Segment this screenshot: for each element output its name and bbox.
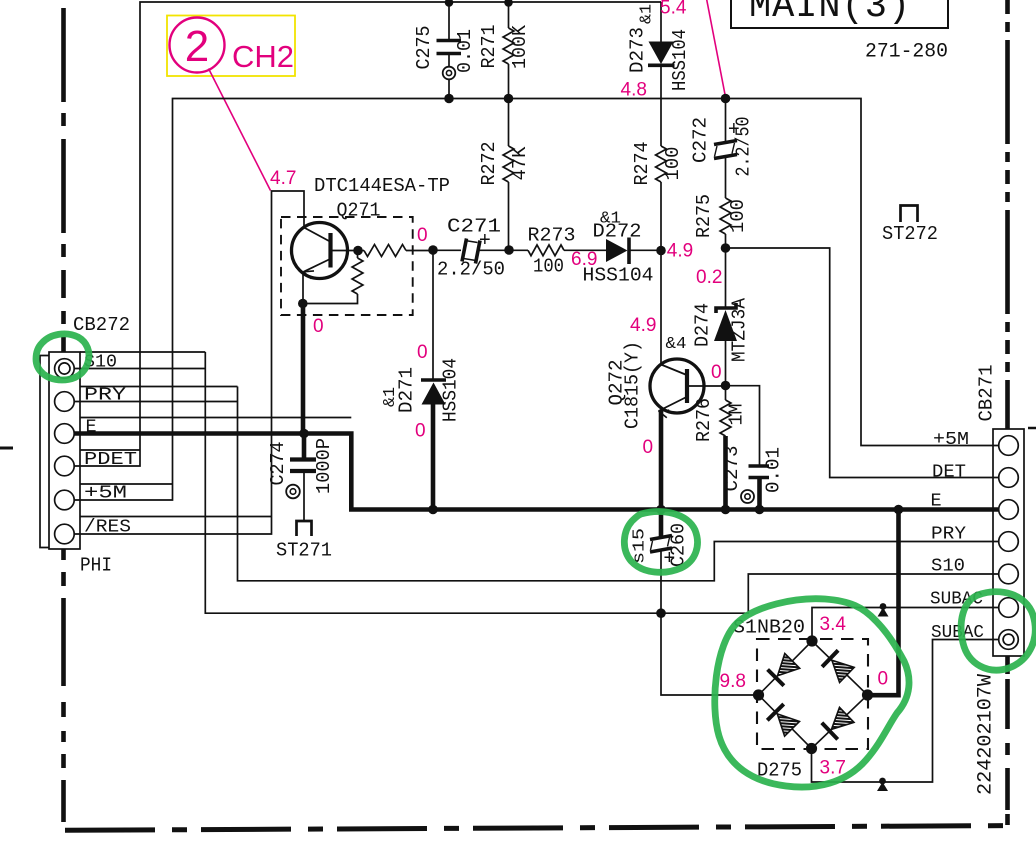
capacitor C260 (electrolytic) bbox=[631, 510, 690, 614]
svg-text:2.2/50: 2.2/50 bbox=[437, 259, 505, 281]
annotation voltage 0 #11 bbox=[711, 362, 722, 383]
resistor R272 47K bbox=[478, 99, 531, 251]
label 224202107W bbox=[975, 674, 998, 795]
svg-text:0.01: 0.01 bbox=[454, 29, 476, 73]
svg-text:C260: C260 bbox=[668, 523, 690, 567]
svg-text:R271: R271 bbox=[478, 25, 500, 69]
label S10 (CB272) bbox=[80, 352, 205, 373]
svg-text:C271: C271 bbox=[447, 216, 501, 238]
svg-text:100: 100 bbox=[533, 256, 564, 278]
svg-text:C273: C273 bbox=[721, 446, 743, 492]
capacitor C273 0.01 bbox=[721, 386, 785, 510]
svg-text:0: 0 bbox=[313, 316, 324, 337]
label PRY (CB271) bbox=[931, 524, 966, 545]
annotation voltage 3.7 #16 bbox=[820, 758, 846, 779]
svg-text:HSS104: HSS104 bbox=[440, 358, 462, 422]
svg-text:224202107W: 224202107W bbox=[975, 674, 998, 795]
annotation voltage 6.9 #7 bbox=[571, 249, 597, 270]
svg-text:0: 0 bbox=[417, 225, 428, 246]
connector CB271 pin +5M bbox=[999, 436, 1019, 456]
label SUBA (CB271) bbox=[930, 589, 983, 610]
svg-text:C275: C275 bbox=[413, 26, 435, 70]
wire Q272 emitter to E (thick) bbox=[659, 410, 664, 510]
page edge tick right bbox=[1028, 427, 1036, 430]
page edge tick left bbox=[0, 447, 13, 450]
label /RES (CB272) bbox=[80, 517, 272, 538]
wire DET net bbox=[726, 248, 999, 478]
svg-text:R274: R274 bbox=[631, 142, 653, 186]
svg-text:4.9: 4.9 bbox=[630, 315, 656, 336]
annotation voltage 5.4 #0 bbox=[660, 0, 687, 19]
svg-text:4.8: 4.8 bbox=[621, 80, 647, 101]
bridge diode lower-left bbox=[767, 704, 799, 736]
annotation voltage 4.7 #2 bbox=[270, 168, 296, 189]
connector CB272 pin PRY bbox=[55, 392, 75, 412]
connector CB272 pin PDET bbox=[55, 456, 75, 476]
capacitor C271 2.2/50 (electrolytic) bbox=[433, 216, 509, 281]
svg-text:S10: S10 bbox=[931, 556, 965, 577]
junction R271 bottom bbox=[504, 94, 514, 104]
svg-text:100K: 100K bbox=[509, 24, 531, 69]
annotation voltage 0 #4 bbox=[313, 316, 324, 337]
resistor Q271 internal R2 bbox=[303, 251, 363, 304]
svg-text:4.9: 4.9 bbox=[667, 241, 693, 262]
svg-text:0.2: 0.2 bbox=[696, 267, 722, 288]
svg-text:3.4: 3.4 bbox=[820, 614, 847, 635]
svg-text:0: 0 bbox=[417, 342, 428, 363]
connector CB272 bracket bbox=[40, 356, 49, 548]
junction bridge bottom vertex bbox=[806, 743, 817, 754]
highlight ring CB272 S10 pin bbox=[36, 334, 89, 380]
resistor R273 100 bbox=[509, 225, 606, 278]
bridge diode upper-left bbox=[768, 654, 800, 686]
junction D272 cathode / R274 node bbox=[656, 246, 666, 256]
junction C260/S10 node bbox=[656, 608, 666, 618]
svg-text:ST272: ST272 bbox=[882, 223, 938, 245]
annotation voltage 0 #5 bbox=[417, 342, 428, 363]
svg-text:DET: DET bbox=[932, 462, 966, 483]
junction E feeder right bbox=[894, 505, 904, 515]
resistor R275 100 bbox=[693, 157, 749, 248]
svg-text:271-280: 271-280 bbox=[865, 41, 948, 64]
bridge diode lower-right bbox=[822, 707, 854, 739]
svg-text:CB271: CB271 bbox=[976, 365, 998, 422]
connector CB272 pin /RES bbox=[55, 524, 75, 544]
junction bridge right vertex bbox=[862, 689, 873, 700]
strap ST271 bbox=[276, 521, 332, 562]
callout circled 2 bbox=[170, 18, 225, 73]
svg-text:ST271: ST271 bbox=[276, 540, 332, 562]
svg-text:SUBAC: SUBAC bbox=[931, 622, 984, 643]
highlight ring C260 bbox=[624, 512, 697, 573]
svg-text:Q271: Q271 bbox=[337, 200, 381, 222]
label PRY (CB272) bbox=[80, 385, 238, 406]
connector CB271 pin PRY bbox=[999, 532, 1019, 552]
svg-text:2.2/50: 2.2/50 bbox=[733, 117, 755, 177]
wire PRY net bbox=[74, 387, 998, 581]
callout box (yellow) bbox=[167, 16, 295, 77]
resistor R274 100 bbox=[631, 142, 684, 365]
test point marker on SUBAC wire bbox=[877, 778, 888, 791]
wire E feeder to bridge right vertex (thick) bbox=[865, 510, 899, 696]
junction bridge left vertex bbox=[753, 689, 764, 700]
annotation voltage 0.2 #10 bbox=[696, 267, 722, 288]
annotation voltage 4.9 #8 bbox=[667, 241, 693, 262]
wire /RES net bbox=[74, 191, 304, 534]
junction D271/E bbox=[428, 505, 438, 515]
annotation voltage 0 #6 bbox=[415, 421, 426, 442]
label +5M (CB271) bbox=[933, 429, 969, 450]
svg-text:4.7: 4.7 bbox=[270, 168, 296, 189]
svg-text:R276: R276 bbox=[693, 398, 715, 442]
diode D272 HSS104 bbox=[583, 210, 662, 287]
svg-text:+: + bbox=[479, 229, 491, 251]
svg-text:100: 100 bbox=[727, 199, 749, 233]
junction R275 bottom / DET node bbox=[721, 243, 731, 253]
label PHI bbox=[80, 555, 112, 577]
svg-text:0: 0 bbox=[643, 437, 654, 458]
junction C275 bottom bbox=[444, 94, 454, 104]
label 271-280 bbox=[865, 41, 948, 64]
svg-text:HSS104: HSS104 bbox=[669, 29, 691, 91]
capacitor C275 bbox=[413, 2, 476, 99]
wire bridge top to SUBA net bbox=[812, 608, 998, 642]
svg-text:MAIN(3): MAIN(3) bbox=[749, 0, 911, 28]
svg-text:R273: R273 bbox=[528, 225, 576, 247]
svg-text:R272: R272 bbox=[478, 142, 500, 186]
junction Q271 base node bbox=[353, 246, 363, 256]
junction D274 anode / Q272 base node bbox=[721, 381, 731, 391]
junction C271/R272/R273 node bbox=[504, 245, 514, 255]
svg-text:D272: D272 bbox=[593, 221, 642, 243]
connector CB272 body bbox=[49, 314, 130, 549]
svg-text:D271: D271 bbox=[396, 367, 418, 413]
label S10 (CB271) bbox=[931, 556, 965, 577]
diode D271 HSS104 bbox=[381, 250, 462, 510]
junction Q271 emitter node bbox=[298, 299, 308, 309]
label SUBAC (CB271) bbox=[931, 622, 984, 643]
label E (CB271) bbox=[931, 491, 942, 512]
bridge diode upper-right bbox=[822, 650, 854, 682]
wire Q271 emitter to E (thick) bbox=[301, 304, 306, 434]
svg-text:1000P: 1000P bbox=[313, 438, 335, 494]
wire E net (thick) bbox=[74, 434, 998, 510]
callout leader line to 5.4 node bbox=[706, 0, 726, 97]
wire SUBAC net bbox=[812, 640, 999, 783]
svg-text:DTC144ESA-TP: DTC144ESA-TP bbox=[314, 175, 450, 197]
transistor Q272 C1815(Y) bbox=[606, 335, 726, 429]
svg-text:9.8: 9.8 bbox=[720, 671, 746, 692]
annotation voltage 4.9 #9 bbox=[630, 315, 656, 336]
svg-text:D273: D273 bbox=[627, 27, 649, 73]
diode D273 HSS104 bbox=[627, 2, 692, 146]
junction R276/E bbox=[721, 505, 731, 515]
connector CB272 pin S10 bbox=[55, 359, 75, 379]
svg-text:CH2: CH2 bbox=[232, 39, 294, 74]
callout leader line to 4.7 node bbox=[209, 69, 271, 191]
callout label CH2 bbox=[232, 39, 294, 74]
page border left (dash-dot) bbox=[61, 8, 66, 822]
wire S10 net bbox=[74, 352, 998, 613]
svg-text:100: 100 bbox=[662, 147, 684, 181]
svg-text:5.4: 5.4 bbox=[660, 0, 687, 19]
junction bridge top vertex bbox=[806, 635, 817, 646]
label PDET (CB272) bbox=[80, 449, 140, 470]
wire +5M net bbox=[74, 99, 998, 501]
wire PDET net bbox=[74, 2, 661, 466]
resistor Q271 internal R1 bbox=[358, 245, 433, 257]
annotation voltage 9.8 #14 bbox=[720, 671, 746, 692]
junction C273/E bbox=[755, 505, 765, 515]
resistor R276 1M bbox=[693, 386, 748, 510]
junction R271 top bbox=[504, 0, 513, 7]
highlight blob bridge D275 bbox=[715, 599, 909, 787]
svg-text:0: 0 bbox=[415, 421, 426, 442]
resistor R271 100K bbox=[478, 2, 531, 99]
svg-text:D274: D274 bbox=[692, 303, 714, 347]
connector CB272 pin +5M bbox=[55, 490, 75, 510]
svg-text:R275: R275 bbox=[693, 194, 715, 238]
svg-text:&1: &1 bbox=[638, 4, 657, 24]
annotation voltage 0 #15 bbox=[878, 669, 889, 690]
label DET (CB271) bbox=[932, 462, 966, 483]
capacitor C274 1000P bbox=[267, 434, 335, 521]
connector CB271 pin SUBAC bbox=[999, 630, 1019, 650]
transistor Q271 DTC144ESA-TP bbox=[281, 175, 450, 315]
annotation voltage 3.4 #13 bbox=[820, 614, 847, 635]
svg-text:0: 0 bbox=[711, 362, 722, 383]
annotation voltage 4.8 #1 bbox=[621, 80, 647, 101]
junction Q272 emitter/E bbox=[656, 505, 666, 515]
junction C271 left node bbox=[428, 245, 438, 255]
title box MAIN(3) bbox=[731, 0, 948, 28]
strap ST272 bbox=[882, 206, 938, 246]
svg-text:E: E bbox=[931, 491, 942, 512]
svg-text:PHI: PHI bbox=[80, 555, 112, 577]
svg-text:C1815(Y): C1815(Y) bbox=[622, 341, 644, 429]
svg-text:1M: 1M bbox=[726, 404, 748, 426]
svg-text:2: 2 bbox=[185, 22, 209, 71]
page border right (dash-dot) bbox=[1005, 0, 1010, 825]
svg-text:+5M: +5M bbox=[933, 429, 969, 450]
connector CB271 pin DET bbox=[999, 468, 1019, 488]
svg-text:6.9: 6.9 bbox=[571, 249, 597, 270]
annotation voltage 0 #12 bbox=[643, 437, 654, 458]
svg-text:CB272: CB272 bbox=[73, 314, 130, 336]
junction C275 top bbox=[445, 0, 454, 7]
svg-text:C272: C272 bbox=[690, 117, 712, 163]
connector CB272 pin E bbox=[55, 424, 75, 444]
label E (CB272) bbox=[80, 417, 351, 438]
junction C272 top bbox=[721, 94, 731, 104]
junction E/C274 node bbox=[299, 429, 309, 439]
connector CB271 pin S10 bbox=[999, 564, 1019, 584]
svg-text:&4: &4 bbox=[666, 335, 687, 354]
svg-text:PRY: PRY bbox=[931, 524, 966, 545]
svg-text:0: 0 bbox=[878, 669, 889, 690]
svg-text:MTZJ3A: MTZJ3A bbox=[729, 297, 751, 362]
connector CB271 pin E bbox=[999, 500, 1019, 520]
test point marker on SUBA wire bbox=[878, 603, 889, 616]
connector CB271 pin SUBA bbox=[999, 598, 1019, 618]
svg-text:47K: 47K bbox=[509, 146, 531, 181]
annotation voltage 0 #3 bbox=[417, 225, 428, 246]
bridge rectifier D275 S1NB20 outline bbox=[733, 617, 868, 782]
page border bottom (dash-dot) bbox=[65, 826, 1008, 831]
zener diode D274 MTZJ3A bbox=[692, 248, 751, 386]
svg-text:0.01: 0.01 bbox=[763, 447, 785, 493]
capacitor C272 2.2/50 (electrolytic) bbox=[690, 99, 755, 177]
highlight ring CB271 SUBAC pin bbox=[961, 592, 1035, 670]
svg-text:C274: C274 bbox=[267, 442, 289, 486]
wire C260 to bridge left vertex bbox=[661, 613, 759, 695]
label +5M (CB272) bbox=[80, 483, 173, 504]
connector CB271 body bbox=[976, 365, 1025, 657]
